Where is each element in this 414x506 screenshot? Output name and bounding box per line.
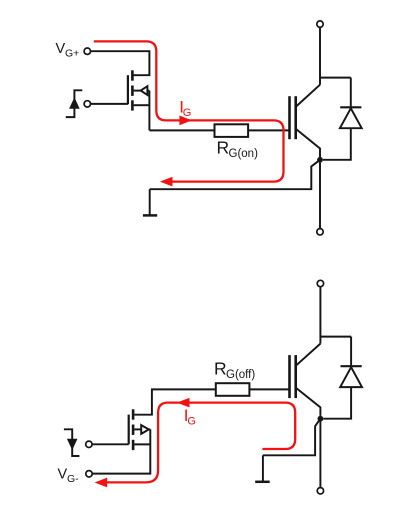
- wire gate input to Q2 gate: [92, 443, 129, 445]
- wire Q1 source down: [148, 91, 150, 131]
- transistor Q1 gate bar: [127, 75, 129, 104]
- wire collector 2: [296, 287, 351, 366]
- transistor Q1 channel: [131, 70, 134, 110]
- value label RG(on): [217, 138, 259, 161]
- diode D2: [323, 337, 362, 419]
- transistor Q2 gate bar: [128, 415, 130, 445]
- svg-text:G(on): G(on): [229, 148, 259, 160]
- terminal emitter bottom: [317, 229, 323, 235]
- resistor RG(on): [215, 124, 249, 137]
- transistor Q2 body arrow: [134, 425, 150, 434]
- svg-text:G(off): G(off): [226, 369, 255, 381]
- IGBT U2 bars: [290, 355, 296, 398]
- terminal emitter bottom 2: [317, 488, 323, 494]
- svg-text:V: V: [58, 467, 68, 483]
- label IG top: [179, 98, 191, 119]
- transistor Q1 source stub: [134, 104, 150, 106]
- transistor Q2 channel: [132, 409, 135, 450]
- arrow IG left: [177, 398, 190, 408]
- arrow IG right: [179, 116, 192, 126]
- terminal gate input top: [84, 101, 90, 107]
- rising edge symbol: [66, 90, 83, 117]
- label IG bottom: [184, 406, 196, 427]
- terminal gate input bottom: [86, 441, 92, 447]
- wire emitter return: [150, 160, 320, 189]
- current path IG on (red): [94, 41, 284, 181]
- wire emitter to bottom terminal 2: [319, 422, 321, 488]
- svg-text:R: R: [217, 138, 230, 158]
- terminal collector top 2: [317, 280, 323, 286]
- IGBT U1 bars: [290, 96, 296, 139]
- arrow return left: [160, 177, 173, 187]
- wire emitter return 2: [263, 419, 321, 456]
- arrow VG- left: [95, 478, 108, 488]
- ground GND2: [255, 455, 270, 482]
- resistor RG(off): [216, 383, 250, 396]
- svg-text:G: G: [187, 416, 196, 428]
- diode D1: [323, 78, 362, 160]
- svg-text:V: V: [56, 41, 66, 57]
- terminal VG+: [84, 48, 90, 54]
- svg-text:G-: G-: [67, 473, 79, 485]
- wire Q2 drain to RG(off) to IGBT gate: [134, 389, 289, 414]
- terminal VG-: [86, 471, 92, 477]
- wire Q2 source to VG-: [92, 429, 150, 473]
- svg-text:G: G: [183, 107, 192, 119]
- terminal collector top: [317, 21, 323, 27]
- value label RG(off): [214, 359, 255, 381]
- wire Q1 to RG(on) to IGBT gate: [149, 129, 289, 131]
- junction node E2: [318, 416, 324, 422]
- svg-text:G+: G+: [65, 48, 79, 60]
- wire gate input to Q1 gate: [91, 103, 128, 105]
- node VG- label: [58, 467, 80, 485]
- wire VG+ to Q1 drain: [91, 51, 150, 75]
- transistor Q1 body arrow: [134, 86, 150, 95]
- current path IG off (red): [105, 403, 295, 483]
- transistor Q2 source stub: [134, 443, 150, 445]
- junction node E1: [317, 157, 323, 163]
- IGBT U1 emitter: [296, 129, 320, 157]
- falling edge symbol: [64, 429, 80, 456]
- wire emitter to bottom terminal: [319, 163, 321, 229]
- ground GND1: [143, 189, 157, 215]
- svg-text:R: R: [214, 359, 227, 379]
- wire collector: [296, 27, 351, 107]
- IGBT U2 emitter: [296, 388, 321, 416]
- node VG+ label: [56, 41, 80, 60]
